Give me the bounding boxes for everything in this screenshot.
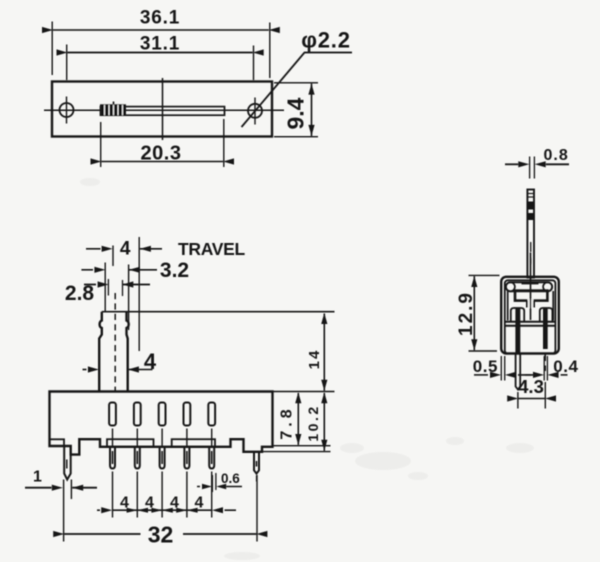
left terminal inside xyxy=(515,308,520,353)
dim 4.3 extension lines xyxy=(518,382,545,409)
dim 7.8 text xyxy=(279,405,296,439)
TRAVEL text xyxy=(178,239,246,259)
svg-text:4: 4 xyxy=(120,495,129,512)
dim 20.3 text xyxy=(141,143,182,165)
dia 2.2 leader line xyxy=(242,53,353,128)
pin center lines extended xyxy=(113,472,212,518)
top view vertical center line xyxy=(162,78,164,140)
dim 2.8 tick E xyxy=(107,279,109,296)
dim 0.6 ticks xyxy=(212,473,216,492)
dim 14 text xyxy=(306,349,323,370)
right pin dash below body xyxy=(544,353,546,372)
dim 0.6 line xyxy=(197,484,242,490)
dim 4.3 line xyxy=(507,395,556,401)
dim 4.3 text xyxy=(518,376,544,397)
frame tab window 2 xyxy=(172,439,215,447)
svg-text:12.9: 12.9 xyxy=(456,291,477,336)
svg-text:φ2.2: φ2.2 xyxy=(301,28,351,53)
side view lever xyxy=(527,190,534,278)
svg-text:31.1: 31.1 xyxy=(140,34,180,55)
svg-text:2.8: 2.8 xyxy=(65,282,95,305)
left mounting leg xyxy=(64,446,71,480)
dim 0.6 text xyxy=(221,471,240,486)
shaft-left extension line C xyxy=(104,263,106,312)
svg-text:0.4: 0.4 xyxy=(553,357,578,376)
solder pin 6 (end) xyxy=(254,452,259,474)
dim 31.1 text xyxy=(140,34,180,55)
dim 4 shaft text xyxy=(144,349,157,374)
side view body inner shell xyxy=(505,280,556,353)
dim 7.8 line xyxy=(295,392,301,445)
dim 4 travel line xyxy=(86,246,162,252)
side view center slot (H) xyxy=(515,291,547,308)
dim 9.4 extension lines xyxy=(274,83,318,137)
dim 31.1 extension lines xyxy=(67,45,254,81)
dim 10.2 text xyxy=(305,404,321,441)
base plate lines xyxy=(505,322,556,326)
svg-text:4.3: 4.3 xyxy=(518,376,544,397)
bottom extension line 10.2 xyxy=(263,451,331,453)
dim 3.2 text xyxy=(160,259,189,282)
dim 12.9 line xyxy=(471,276,477,350)
dim 9.4 line xyxy=(308,84,314,136)
side view lever knurling xyxy=(527,194,534,265)
side view center line xyxy=(530,253,532,321)
body top extension line xyxy=(273,391,335,393)
svg-text:3.2: 3.2 xyxy=(160,259,189,282)
dim 0.8 ticks xyxy=(530,157,535,179)
dim 32 text xyxy=(148,522,174,548)
svg-text:0.5: 0.5 xyxy=(473,357,498,376)
svg-text:4: 4 xyxy=(145,495,154,512)
dim 2.8 line xyxy=(84,281,150,287)
dim 32 line xyxy=(53,531,267,537)
dim 4 chain text b xyxy=(145,495,154,512)
travel dim tick A xyxy=(112,246,114,267)
dia 2.2 text xyxy=(301,28,351,53)
svg-text:4: 4 xyxy=(144,349,157,374)
dim 4 chain text c xyxy=(170,495,179,512)
top view horizontal center line xyxy=(44,109,284,111)
dim 36.1 extension lines xyxy=(52,22,270,79)
bottom extension line 7.8 xyxy=(274,445,331,447)
dim 0.4 ticks xyxy=(544,356,547,381)
dim 0.5 line xyxy=(474,372,540,378)
dim 2.8 text xyxy=(65,282,95,305)
svg-text:4: 4 xyxy=(170,495,179,512)
dim 1 line xyxy=(25,485,97,491)
dim 36.1 line xyxy=(42,27,280,33)
dim 32 extension lines xyxy=(64,475,257,542)
dim 4 chain text a xyxy=(120,495,129,512)
svg-text:0.8: 0.8 xyxy=(544,147,569,164)
right contact xyxy=(540,308,553,322)
right mounting hole xyxy=(248,98,262,125)
dim 2.8 tick F xyxy=(122,280,124,296)
contact slots (5) xyxy=(109,403,215,426)
left pin below body xyxy=(516,354,521,390)
dim 4x4 chain line xyxy=(97,507,236,513)
shaft-right extension line D xyxy=(128,265,130,331)
dim 0.8 text xyxy=(544,147,569,164)
dim 4 chain text d xyxy=(195,495,204,512)
svg-text:7.8: 7.8 xyxy=(279,405,296,439)
switch body outline (front view) xyxy=(50,392,273,455)
dim 9.4 text xyxy=(283,97,309,129)
shaft top edge + dim-14 extension line xyxy=(102,311,335,313)
svg-text:32: 32 xyxy=(148,522,174,548)
svg-text:10.2: 10.2 xyxy=(305,404,321,441)
pin 6 center dash xyxy=(256,476,258,482)
svg-text:1: 1 xyxy=(33,469,42,486)
left contact xyxy=(511,308,524,322)
svg-text:14: 14 xyxy=(306,349,323,370)
dim 4 travel text xyxy=(120,238,131,259)
dim 1 text xyxy=(33,469,42,486)
shaft dashed center line (alternate position) xyxy=(114,293,116,391)
dim 36.1 text xyxy=(140,8,180,29)
actuator shaft (front view) xyxy=(99,312,129,392)
svg-text:4: 4 xyxy=(120,238,131,259)
svg-text:4: 4 xyxy=(195,495,204,512)
dim 20.3 line xyxy=(91,158,235,164)
left mounting hole xyxy=(60,97,74,124)
side view top cam slot xyxy=(506,282,552,291)
scan smudges (noise) xyxy=(80,178,534,560)
dim 0.5 text xyxy=(473,357,498,376)
svg-text:20.3: 20.3 xyxy=(141,143,182,165)
travel extension line B xyxy=(138,237,140,351)
dim 12.9 extension lines xyxy=(469,275,500,351)
svg-text:9.4: 9.4 xyxy=(283,97,309,129)
dim 0.5 ticks xyxy=(501,356,504,381)
dim 31.1 line xyxy=(57,49,264,55)
dim 14 line xyxy=(321,313,327,391)
solder pins 1-5 xyxy=(110,447,214,469)
svg-text:36.1: 36.1 xyxy=(140,8,180,29)
dim 1 ticks xyxy=(70,480,72,500)
left corner window xyxy=(50,439,65,446)
slider knob (knurled) xyxy=(100,102,126,116)
side view liner verticals xyxy=(508,291,554,320)
dim 0.4 text xyxy=(553,357,578,376)
right terminal inside xyxy=(543,308,548,349)
frame tab window 1 xyxy=(107,439,154,447)
side view body outer shell xyxy=(501,277,559,354)
dim 0.8 line xyxy=(505,161,569,167)
svg-text:TRAVEL: TRAVEL xyxy=(178,239,246,259)
dim 3.2 line xyxy=(81,267,157,273)
top view body outline xyxy=(52,82,272,137)
dim 20.3 extension lines xyxy=(101,119,224,167)
dim 0.4 line xyxy=(525,372,568,378)
dim 10.2 line xyxy=(321,392,327,451)
slider slot outline xyxy=(101,107,225,116)
slot-to-pin center ticks xyxy=(113,429,212,447)
dim 4 shaft line xyxy=(83,366,153,372)
dim 12.9 text xyxy=(456,291,477,336)
svg-text:0.6: 0.6 xyxy=(221,471,240,486)
